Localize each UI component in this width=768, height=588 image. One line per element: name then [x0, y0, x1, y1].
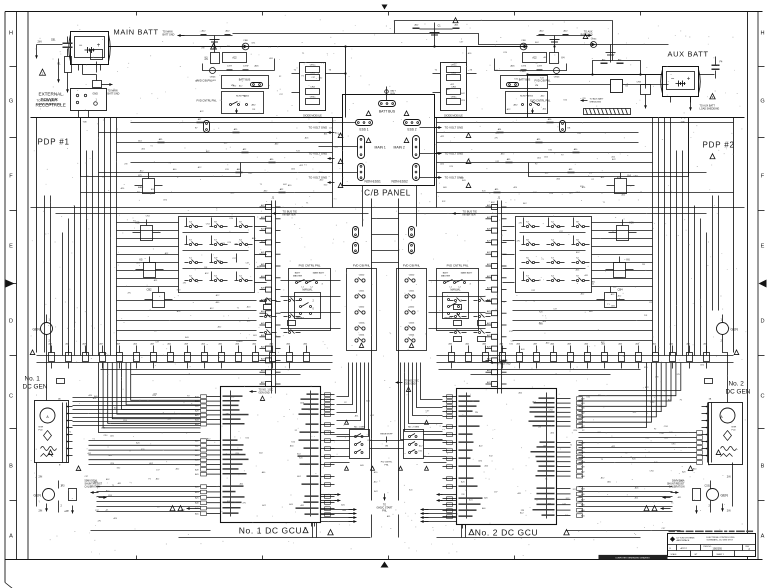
- svg-text:MASTER: MASTER: [293, 274, 303, 277]
- svg-text:No. 2: No. 2: [729, 381, 745, 388]
- svg-text:2/N: 2/N: [642, 264, 646, 266]
- gcu2 inner pin wires to center boxes: [424, 434, 447, 436]
- svg-text:TO VOLT GND: TO VOLT GND: [309, 176, 328, 180]
- svg-text:A29: A29: [581, 466, 584, 469]
- svg-text:MANUAL: MANUAL: [303, 289, 314, 292]
- lower diode row: [495, 64, 567, 71]
- gcu1 bottom drop wires: [312, 523, 314, 538]
- svg-text:TO AUX BATT: TO AUX BATT: [590, 98, 605, 101]
- GCU box No. 1 DC GCU: [221, 387, 321, 523]
- svg-text:CB22: CB22: [359, 307, 365, 309]
- gen right feeder circle top: [717, 323, 729, 335]
- svg-text:A40: A40: [195, 502, 198, 505]
- svg-text:A59: A59: [195, 449, 198, 452]
- left bundle bottom bends into row: [62, 353, 64, 356]
- svg-text:CR46: CR46: [210, 77, 216, 79]
- generator left interpole diamond: [44, 431, 52, 441]
- series diode on bus: [520, 43, 527, 50]
- svg-text:CR3: CR3: [310, 87, 315, 89]
- svg-text:AEROSPACE: AEROSPACE: [677, 539, 690, 542]
- svg-text:+: +: [97, 43, 101, 49]
- svg-text:2/N: 2/N: [727, 476, 731, 479]
- gen right circle pins: [722, 315, 724, 323]
- svg-text:G: G: [760, 99, 764, 105]
- generator right machine box: [709, 403, 743, 465]
- svg-text:B: B: [761, 464, 765, 470]
- svg-text:INVERTER: INVERTER: [283, 213, 296, 217]
- svg-text:NO. 1 GEN: NO. 1 GEN: [354, 427, 365, 429]
- wire module T3 to bus: [336, 73, 346, 75]
- GCU No. 2 DC GCU bottom ground pins: [462, 525, 464, 529]
- svg-text:E: E: [761, 244, 765, 250]
- svg-text:−: −: [671, 77, 675, 83]
- svg-text:2/N: 2/N: [538, 426, 542, 428]
- external power receptacle box: [71, 89, 107, 111]
- disclaimer line above title block: [669, 531, 676, 533]
- aux batt right side stack: [699, 74, 715, 76]
- center top cap C1: [434, 29, 436, 47]
- svg-text:FVD C/B PNL: FVD C/B PNL: [403, 264, 421, 268]
- cb panel left feed wires: [319, 122, 356, 124]
- center tie stubs: [362, 199, 364, 227]
- bus wire center top: [346, 46, 435, 48]
- svg-text:2/N: 2/N: [127, 292, 131, 294]
- gcu1 gnd stub arrows: [321, 494, 337, 496]
- svg-text:G: G: [9, 99, 13, 105]
- svg-text:A22: A22: [232, 57, 237, 60]
- svg-text:No. 2 DC GCU: No. 2 DC GCU: [475, 528, 538, 538]
- k7 pill below bus left: [204, 121, 210, 133]
- svg-text:MAIN BATT: MAIN BATT: [313, 272, 325, 275]
- wire pdp1 right edge: [332, 118, 334, 208]
- svg-text:H: H: [760, 31, 764, 37]
- relay cluster box right: [516, 217, 592, 293]
- svg-text:A45: A45: [581, 407, 584, 410]
- svg-text:LOAD SHEDDING: LOAD SHEDDING: [700, 108, 720, 111]
- generator right interpole diamond: [724, 431, 732, 441]
- svg-text:A: A: [9, 534, 13, 540]
- J1 connector column right: [497, 201, 499, 394]
- svg-text:A49: A49: [195, 468, 198, 471]
- gcu1 start wires to center: [321, 509, 353, 511]
- svg-text:PDP #2: PDP #2: [703, 141, 735, 150]
- svg-text:A31: A31: [195, 473, 198, 476]
- svg-text:2/N: 2/N: [204, 267, 208, 269]
- svg-text:SHEDDING: SHEDDING: [590, 101, 602, 103]
- center vertical buses: [371, 199, 373, 501]
- svg-text:BATT: BATT: [295, 272, 301, 275]
- svg-text:FVD CNTRL PNL: FVD CNTRL PNL: [197, 99, 218, 103]
- secondary cluster right: [450, 300, 454, 302]
- left K relay boxes on bundle: [143, 179, 155, 194]
- svg-text:FVD CNTRL PNL: FVD CNTRL PNL: [447, 264, 469, 268]
- svg-text:K4: K4: [628, 174, 632, 178]
- svg-text:BATT GND: BATT GND: [163, 34, 175, 37]
- GCU No. 1 DC GCU outer pin block A: [207, 396, 221, 398]
- wire pdp2 left edge: [436, 118, 438, 208]
- svg-text:GEN GND: GEN GND: [259, 392, 270, 395]
- svg-text:CB1: CB1: [51, 39, 56, 42]
- svg-text:PDP #1: PDP #1: [38, 138, 70, 147]
- left band horizontals y120-200: [131, 122, 333, 124]
- gcu2 gnd stub arrows: [441, 494, 457, 496]
- svg-text:A44: A44: [195, 396, 198, 399]
- right mid arrow: [759, 280, 767, 288]
- svg-text:DC GEN: DC GEN: [23, 384, 48, 391]
- top cluster left gnd row: [178, 35, 233, 37]
- svg-text:A22: A22: [532, 57, 537, 60]
- gen left bottom wires: [58, 481, 60, 489]
- title block logo: [670, 537, 675, 542]
- svg-text:BATT: BATT: [443, 272, 449, 275]
- ess1 pill: [356, 120, 373, 126]
- horizontal long bus y213: [56, 213, 369, 215]
- svg-text:TO VOLT GND: TO VOLT GND: [445, 126, 464, 130]
- svg-text:CB24: CB24: [359, 335, 365, 337]
- gcu2 block B horizontals to gen strip: [579, 432, 697, 434]
- svg-text:CR1a: CR1a: [451, 65, 457, 67]
- svg-text:BUS: BUS: [391, 93, 396, 95]
- bottom risers: [371, 515, 373, 538]
- gen left bottom shunt resistor: [69, 489, 77, 501]
- svg-text:No. 1 DC GCU: No. 1 DC GCU: [239, 526, 302, 536]
- top cluster right gnd row: [537, 35, 592, 37]
- svg-text:CR1: CR1: [451, 73, 456, 75]
- GCU No. 1 DC GCU bottom ground pins: [314, 523, 316, 527]
- gen right bottom circle GEN: [707, 489, 719, 501]
- svg-text:MAIN 2: MAIN 2: [394, 146, 405, 150]
- GCU No. 2 DC GCU inner pin rows: [443, 396, 457, 398]
- svg-text:GEN: GEN: [721, 494, 729, 498]
- lower diode row: [203, 64, 275, 71]
- ess2 pill: [404, 120, 421, 126]
- svg-text:PNL: PNL: [382, 510, 387, 513]
- svg-text:2/N: 2/N: [519, 222, 523, 224]
- left lead wires: [37, 44, 63, 46]
- svg-text:CALIBRATION: CALIBRATION: [85, 486, 101, 489]
- warning triangles inside cb panel: [366, 111, 371, 116]
- aux feed upper branch: [593, 61, 641, 75]
- GCU No. 2 DC GCU outer pin block B: [557, 442, 571, 444]
- left mid arrow: [6, 280, 15, 288]
- svg-text:C: C: [9, 394, 13, 400]
- svg-text:DWG NO.: DWG NO.: [704, 546, 713, 548]
- svg-text:2/N: 2/N: [243, 503, 247, 505]
- svg-text:C377: C377: [537, 66, 543, 68]
- svg-text:ELECTRICAL CONTROL DWG: ELECTRICAL CONTROL DWG: [707, 536, 735, 539]
- svg-text:RESET: RESET: [445, 318, 453, 320]
- horizontal long bus y207: [31, 207, 745, 209]
- mid band inter-connections right: [592, 222, 653, 224]
- warning triangle left: [39, 69, 45, 75]
- svg-text:2/N: 2/N: [677, 374, 681, 376]
- svg-text:A43: A43: [195, 459, 198, 462]
- manual reset box left: [295, 293, 321, 319]
- non-ess2 pill: [413, 164, 420, 181]
- GCU No. 2 DC GCU outer pin block A: [557, 398, 571, 400]
- gcu2 staircase fan from connector row: [579, 363, 647, 428]
- left vertical wire bundle: [62, 233, 64, 353]
- gen left feeder circle top: [41, 323, 53, 335]
- right outer vertical feeder: [733, 118, 735, 353]
- svg-text:−: −: [79, 43, 83, 49]
- main batt inner relay: [91, 50, 103, 60]
- j1 to fvd connections right: [429, 280, 486, 282]
- pdp2 inner box: [529, 118, 689, 177]
- aux batt diode CR30: [641, 85, 651, 95]
- svg-text:CB20: CB20: [359, 275, 365, 277]
- svg-text:2/N: 2/N: [494, 137, 498, 139]
- k8 pill below bus right: [560, 121, 566, 133]
- svg-text:CR46: CR46: [554, 77, 560, 79]
- svg-text:CR1a: CR1a: [310, 65, 316, 67]
- svg-text:CB22: CB22: [409, 307, 415, 309]
- svg-text:FVD C/B PNL: FVD C/B PNL: [197, 79, 214, 83]
- gen left double triangle marker: [170, 506, 175, 511]
- gcu labels bottom tri: [328, 530, 333, 535]
- battery BT2 aux battery: [663, 67, 699, 97]
- bottom wire y530: [91, 530, 211, 532]
- right vertical wire bundle: [652, 118, 654, 353]
- svg-text:A52: A52: [581, 416, 584, 419]
- svg-text:2/N: 2/N: [183, 282, 187, 284]
- svg-text:SCALE: SCALE: [671, 553, 678, 556]
- svg-text:B: B: [9, 464, 13, 470]
- manual reset box right: [443, 293, 469, 319]
- svg-text:C/B PANEL: C/B PANEL: [364, 189, 411, 198]
- svg-text:F: F: [761, 174, 765, 180]
- generator left series coil: [41, 447, 57, 451]
- pdp1 outline top: [31, 117, 343, 119]
- gen right bottom wires: [710, 481, 712, 489]
- svg-text:D: D: [760, 319, 764, 325]
- gcu1 stepped fan from connector row: [99, 363, 201, 433]
- svg-text:A37: A37: [581, 498, 584, 501]
- below-row horizontals left: [101, 369, 331, 371]
- svg-text:2/N: 2/N: [305, 464, 309, 466]
- svg-text:RESET/OFF: RESET/OFF: [380, 434, 393, 436]
- T junction drops: [466, 47, 468, 63]
- svg-text:F: F: [9, 174, 13, 180]
- center inter-gcu switch box left: [350, 430, 370, 459]
- svg-text:GEN: GEN: [731, 328, 739, 332]
- non-ess1 pill: [358, 164, 365, 181]
- svg-text:FVD C/B PNL: FVD C/B PNL: [353, 264, 371, 268]
- J1 connector column left: [271, 201, 273, 394]
- gcu1 block B horizontals: [89, 440, 201, 442]
- gen right ground arrows: [722, 504, 724, 512]
- battery minus lead component stack: [65, 57, 72, 73]
- center k pills: [353, 227, 359, 238]
- svg-text:A41: A41: [195, 486, 198, 489]
- svg-text:NO. 2 GEN: NO. 2 GEN: [408, 427, 419, 429]
- svg-text:C377: C377: [227, 66, 233, 68]
- svg-text:2/N: 2/N: [236, 341, 240, 343]
- left breaker stack CB1: [63, 43, 73, 45]
- svg-text:CB23: CB23: [409, 323, 415, 325]
- generator right series coil: [721, 447, 737, 451]
- svg-text:SHEET 1: SHEET 1: [717, 554, 724, 556]
- gen right warning triangles: [716, 450, 721, 455]
- GCU No. 1 DC GCU inner pin rails: [230, 391, 232, 517]
- svg-text:2/N: 2/N: [226, 414, 230, 416]
- pdp1 inner box: [81, 118, 241, 177]
- svg-text:GEN GND: GEN GND: [405, 383, 416, 386]
- svg-text:2/N: 2/N: [475, 412, 479, 414]
- generator right terminal strip: [711, 403, 713, 463]
- border frame: [5, 11, 763, 13]
- mid band inter-connections left: [117, 222, 179, 224]
- svg-text:ESS 1: ESS 1: [359, 128, 368, 132]
- right band horizontals y120-200: [437, 122, 734, 124]
- svg-text:MAIN BATT: MAIN BATT: [461, 272, 473, 275]
- center cross ties: [372, 218, 399, 220]
- aux batt bottom arrow: [690, 97, 692, 105]
- title block row2: [676, 545, 678, 551]
- top y20 wire: [395, 21, 613, 61]
- svg-text:2/N: 2/N: [201, 47, 205, 49]
- svg-text:K5: K5: [139, 258, 143, 262]
- gen left circle pins: [46, 315, 48, 323]
- svg-text:CB21: CB21: [359, 291, 365, 293]
- svg-text:A: A: [761, 534, 765, 540]
- gen right bottom shunt resistor: [693, 489, 701, 501]
- wire aux battery feed from left: [528, 74, 663, 76]
- svg-text:2/N: 2/N: [38, 40, 42, 44]
- gcu2 start wires to center: [425, 509, 457, 511]
- svg-text:C373: C373: [521, 66, 527, 68]
- svg-text:2/N: 2/N: [727, 510, 731, 513]
- svg-text:FVD CNTRL PNL: FVD CNTRL PNL: [299, 264, 321, 268]
- svg-text:2/N: 2/N: [234, 243, 238, 245]
- svg-text:CR6: CR6: [243, 40, 248, 42]
- lower mid connections right: [513, 300, 653, 302]
- svg-text:2/N: 2/N: [66, 511, 70, 513]
- main2 pill: [413, 136, 420, 159]
- svg-text:BATT GND: BATT GND: [108, 93, 120, 96]
- svg-text:2/N: 2/N: [644, 315, 648, 317]
- svg-text:A32: A32: [195, 444, 198, 447]
- svg-text:C373: C373: [243, 66, 249, 68]
- gen left upper shunt: [57, 379, 65, 384]
- svg-text:A7217: A7217: [681, 547, 688, 550]
- svg-text:ESS 2: ESS 2: [407, 128, 416, 132]
- svg-text:K6: K6: [627, 258, 631, 262]
- gcu2 block C horizontals: [579, 486, 673, 488]
- svg-text:BATT BUS: BATT BUS: [519, 79, 531, 82]
- title block row3: [690, 551, 692, 557]
- warning triangle aux right: [710, 94, 715, 99]
- svg-text:EXTERNAL: EXTERNAL: [39, 92, 64, 97]
- svg-text:GND: GND: [93, 93, 99, 96]
- svg-text:MTR: MTR: [39, 427, 44, 429]
- svg-text:T1B: T1B: [83, 122, 88, 124]
- bottom center mark: [381, 562, 389, 568]
- svg-text:A33: A33: [195, 454, 198, 457]
- zone ticks: [10, 66, 17, 68]
- svg-text:RESET: RESET: [297, 318, 305, 320]
- gcu2 bottom drop wires: [461, 525, 463, 538]
- secondary cluster left: [260, 300, 264, 302]
- svg-text:NON-ESS2: NON-ESS2: [392, 180, 409, 184]
- computer generated strip: [599, 555, 668, 560]
- svg-text:BATT BUS: BATT BUS: [239, 79, 251, 82]
- diode module right: [441, 63, 467, 111]
- svg-text:DC GEN: DC GEN: [726, 389, 751, 396]
- bottom left corner angle: [5, 583, 13, 588]
- svg-text:CB20: CB20: [409, 275, 415, 277]
- GCU No. 1 DC GCU outer pin block B: [207, 440, 221, 442]
- connector row lower stubs: [51, 363, 53, 369]
- center bundle sources: [348, 363, 350, 369]
- svg-text:2/N: 2/N: [39, 476, 43, 479]
- center descending bundle right: [421, 369, 443, 400]
- GCU No. 1 DC GCU inner pin rows: [321, 394, 335, 396]
- gen left bottom circle GEN: [43, 489, 55, 501]
- svg-text:VM: VM: [535, 85, 538, 87]
- generator left terminal strip: [62, 403, 64, 463]
- cb panel right wires with TO VOLT GND: [420, 127, 441, 129]
- svg-text:CR6: CR6: [521, 40, 526, 42]
- svg-text:+: +: [687, 77, 691, 83]
- GCU box No. 2 DC GCU: [457, 389, 557, 525]
- svg-text:MASTER: MASTER: [441, 274, 451, 277]
- svg-text:2/N: 2/N: [517, 241, 521, 243]
- top bottom ticks: [136, 12, 138, 16]
- svg-text:NON PRESS: NON PRESS: [520, 96, 533, 98]
- svg-text:GEN: GEN: [33, 328, 41, 332]
- batt bus riser: [386, 87, 388, 101]
- svg-text:A55: A55: [195, 513, 198, 516]
- battery output down wire: [345, 47, 347, 118]
- svg-text:CR34: CR34: [591, 39, 597, 41]
- svg-text:C19: C19: [705, 485, 710, 488]
- svg-text:GEN: GEN: [34, 494, 42, 498]
- svg-text:A60: A60: [581, 475, 584, 478]
- svg-text:A42: A42: [581, 470, 584, 473]
- center top small components: [413, 28, 420, 30]
- svg-text:2/N: 2/N: [582, 98, 586, 100]
- svg-text:A31: A31: [581, 515, 584, 518]
- svg-text:D: D: [9, 319, 13, 325]
- left outer vertical feeder: [36, 118, 38, 353]
- svg-text:2/N: 2/N: [98, 521, 102, 523]
- gen left warning triangles: [48, 450, 53, 455]
- svg-text:A33: A33: [581, 488, 584, 491]
- svg-text:NON-ESS1: NON-ESS1: [365, 180, 382, 184]
- svg-text:BATT: BATT: [391, 90, 397, 93]
- svg-text:A59: A59: [195, 440, 198, 443]
- below-row horizontals right: [439, 369, 641, 371]
- GCU No. 1 DC GCU outer pin block C: [207, 486, 221, 488]
- bottom long wire left outer: [179, 537, 371, 539]
- C/B panel outline: [343, 95, 435, 186]
- svg-text:2/N: 2/N: [521, 510, 525, 512]
- main1 pill: [358, 136, 365, 159]
- svg-text:No. 1: No. 1: [25, 376, 41, 383]
- ext pwr down wires: [88, 111, 90, 118]
- generator left armature: [40, 408, 55, 423]
- cap pair right: [610, 45, 612, 63]
- center inter-gcu switch box right: [404, 430, 424, 459]
- svg-text:FLD: FLD: [39, 430, 44, 432]
- right K relay boxes on bundle: [615, 179, 627, 194]
- svg-text:2/N: 2/N: [124, 163, 128, 165]
- gcu1 inner pin wires to center boxes: [331, 434, 350, 436]
- svg-text:CR3: CR3: [451, 87, 456, 89]
- generator left machine box: [35, 401, 69, 463]
- pdp tri 2: [710, 154, 715, 159]
